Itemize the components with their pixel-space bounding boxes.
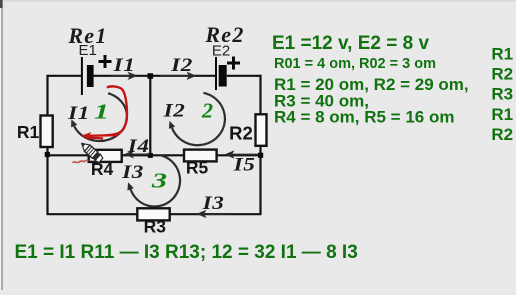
svg-text:R3: R3 xyxy=(144,217,167,237)
current arrow I1 xyxy=(111,72,138,80)
svg-text:I3: I3 xyxy=(121,161,144,183)
pencil icon xyxy=(82,143,103,162)
battery E1 plus xyxy=(99,55,112,68)
svg-text:R1: R1 xyxy=(491,45,513,64)
loop arrow 2 xyxy=(172,93,225,145)
svg-text:R2: R2 xyxy=(491,65,513,84)
loop arrow 1 xyxy=(74,93,127,141)
svg-text:I1: I1 xyxy=(67,102,90,124)
svg-text:I4: I4 xyxy=(127,135,150,157)
svg-text:R4: R4 xyxy=(91,159,114,179)
junction node top xyxy=(148,73,154,79)
svg-text:E1 =12 v, E2 = 8 v: E1 =12 v, E2 = 8 v xyxy=(272,33,429,54)
frame line top xyxy=(0,0,516,2)
svg-text:E1: E1 xyxy=(79,42,97,59)
svg-text:R4 = 8 om, R5 = 16 om: R4 = 8 om, R5 = 16 om xyxy=(274,107,454,126)
svg-text:R2: R2 xyxy=(229,123,253,144)
battery E2 (Re2) xyxy=(215,57,227,90)
svg-text:R1: R1 xyxy=(491,105,513,124)
svg-text:1: 1 xyxy=(94,100,109,123)
red pen loop stroke xyxy=(105,86,127,135)
svg-text:R2: R2 xyxy=(491,125,513,144)
svg-text:3: 3 xyxy=(151,169,167,192)
frame corner mark xyxy=(0,0,3,8)
svg-text:2: 2 xyxy=(201,99,213,122)
svg-text:I2: I2 xyxy=(162,99,185,121)
resistor R5 xyxy=(184,150,217,162)
svg-text:R1: R1 xyxy=(17,122,40,142)
battery E2 plus xyxy=(227,57,240,70)
resistor R2 xyxy=(256,114,267,146)
resistor R1 xyxy=(41,116,53,148)
svg-text:I3: I3 xyxy=(201,192,224,214)
svg-text:I2: I2 xyxy=(170,54,193,76)
svg-text:E2: E2 xyxy=(212,42,230,59)
left margin light strip xyxy=(0,0,1,290)
wire left xyxy=(46,75,48,214)
resistor R4 xyxy=(89,150,122,162)
resistor R3 xyxy=(137,208,169,220)
junction node mid-right xyxy=(258,153,263,158)
svg-text:I5: I5 xyxy=(232,153,255,175)
svg-text:I1: I1 xyxy=(112,54,135,76)
battery E1 (Re1) xyxy=(81,57,94,95)
current arrow I4 xyxy=(124,150,150,158)
red squiggle xyxy=(73,160,89,163)
junction node mid-center xyxy=(148,153,153,158)
current arrow I5 xyxy=(225,150,259,158)
frame line left xyxy=(1,0,2,290)
wire right xyxy=(259,75,261,214)
loop arrow 3 xyxy=(131,155,180,206)
current arrow I2 xyxy=(160,72,197,80)
svg-text:E1 = I1 R11 — I3 R13; 12 = 32: E1 = I1 R11 — I3 R13; 12 = 32 I1 — 8 I3 xyxy=(15,242,358,263)
svg-text:R01 = 4 om, R02 = 3 om: R01 = 4 om, R02 = 3 om xyxy=(274,56,436,72)
wire middle horizontal xyxy=(48,154,261,156)
red pen arrow xyxy=(86,135,118,138)
wire bottom xyxy=(47,213,262,215)
wire top xyxy=(48,75,261,77)
current arrow I3 bottom xyxy=(197,210,230,218)
junction node mid-left xyxy=(45,152,50,157)
svg-text:R3: R3 xyxy=(491,85,513,104)
svg-text:R5: R5 xyxy=(186,158,209,178)
wire middle vertical xyxy=(149,76,151,155)
